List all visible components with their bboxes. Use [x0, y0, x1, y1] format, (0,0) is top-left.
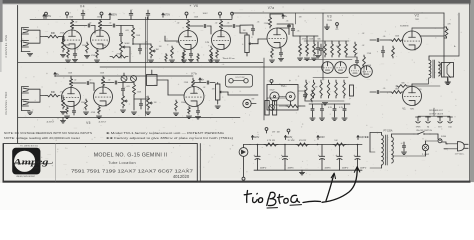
wire jacks to grid bus ch1	[29, 30, 47, 43]
filter capacitor C27 40MFD	[253, 145, 260, 171]
driver triode small a	[349, 65, 361, 77]
svg-text:Tube Location: Tube Location	[108, 161, 136, 165]
note line 2 right	[106, 136, 233, 140]
svg-text:1500: 1500	[181, 102, 185, 104]
svg-text:40MFD: 40MFD	[288, 168, 295, 170]
potentiometer VR3 volume ch1	[245, 33, 253, 56]
cathode bypass capacitor C7 V6a	[188, 50, 193, 62]
sheet right border	[469, 4, 471, 182]
output jack JS4	[448, 117, 453, 129]
svg-text:B75V: B75V	[164, 14, 170, 17]
label bass pot ch1	[155, 49, 158, 51]
underline under a	[290, 204, 302, 207]
svg-text:1M: 1M	[315, 87, 318, 89]
B+ arrow mid	[162, 13, 171, 17]
screen line V2	[400, 26, 444, 28]
svg-text:+: +	[318, 153, 320, 157]
handwritten word to	[278, 195, 289, 204]
svg-text:TM Inc.: TM Inc.	[33, 168, 39, 170]
top cap terminal B ch1	[100, 12, 103, 18]
wire volume to V7a grid	[253, 39, 268, 44]
label C36	[342, 168, 349, 170]
svg-text:270K: 270K	[367, 53, 372, 55]
note line 1 right	[106, 131, 224, 135]
grid resistor R35 V5b	[83, 99, 88, 114]
svg-text:+: +	[335, 153, 337, 157]
svg-text:410V✱✱: 410V✱✱	[359, 136, 369, 139]
svg-text:2K 10W: 2K 10W	[288, 140, 295, 142]
Ampeg logo address bottom	[16, 176, 36, 178]
vertical feed line V3 box	[322, 13, 324, 80]
triode section V3b	[335, 62, 347, 74]
title text part number	[173, 174, 190, 179]
resistor R24 V3 lower b	[312, 80, 315, 98]
output jack JS1	[416, 117, 422, 129]
footswitch jack box	[226, 75, 253, 88]
volume pot VR6 channel two	[215, 83, 223, 109]
label volume ch1	[251, 37, 253, 39]
underline under B	[267, 207, 278, 209]
svg-text:470: 470	[447, 24, 450, 26]
svg-text:B55V: B55V	[111, 14, 117, 17]
svg-text:100K: 100K	[69, 17, 74, 19]
B+ rail mid extension	[118, 19, 170, 21]
svg-text:20MFD: 20MFD	[360, 168, 367, 170]
coupling capacitor C4 V4b out	[100, 24, 121, 27]
heater cap C33	[332, 104, 337, 120]
feedback resistor R30	[396, 85, 440, 88]
heater cap C32	[319, 104, 324, 120]
wire primary to switch	[392, 134, 415, 137]
capacitor C37 V3 screen	[315, 42, 320, 58]
svg-text:.02: .02	[203, 87, 206, 89]
resistor pair R44	[182, 54, 184, 62]
wire lamp circuit	[392, 141, 438, 156]
scanner top edge bar	[0, 0, 474, 4]
coupling capacitor C16 to V2 grid	[370, 38, 390, 41]
svg-text:Break FS sw.: Break FS sw.	[223, 58, 235, 60]
filter capacitor C28 40MFD	[281, 145, 288, 171]
label PT-155A	[384, 130, 393, 133]
divider resistor R19	[311, 42, 316, 60]
svg-text:FOOT SW: FOOT SW	[236, 77, 245, 79]
svg-text:100K: 100K	[395, 36, 400, 38]
ground input jacks ch2	[22, 93, 33, 114]
triode V6b	[212, 31, 231, 50]
svg-text:✱ Model TM-1 factory replacem: ✱ Model TM-1 factory replacement unit — …	[106, 131, 224, 135]
TM-1 internal wires	[275, 97, 291, 106]
svg-text:V7b: V7b	[191, 72, 197, 76]
vertical wire footswitch	[263, 58, 265, 120]
resistor R42 mixer a	[110, 55, 128, 58]
tremolo network box	[147, 70, 158, 86]
series resistor R50 2K7	[264, 143, 278, 146]
svg-text:47Ω 2W: 47Ω 2W	[299, 140, 306, 142]
svg-text:LINDEN, NEW JERSEY: LINDEN, NEW JERSEY	[16, 176, 36, 178]
svg-text:+: +	[353, 153, 355, 157]
svg-text:1500: 1500	[102, 45, 106, 47]
svg-text:.02: .02	[362, 45, 365, 47]
wire TM-1 out	[298, 91, 312, 101]
svg-text:CHANNEL ONE: CHANNEL ONE	[4, 34, 8, 57]
plate resistor R36 V5b	[101, 76, 104, 87]
plate resistor R39 V7b	[192, 78, 195, 87]
junction dot tone out ch1	[132, 43, 134, 45]
wire jacks to grid bus ch2	[29, 89, 47, 102]
svg-text:+: +	[253, 153, 255, 157]
svg-text:.02: .02	[177, 23, 180, 25]
jack J2 channel one input 2	[22, 41, 29, 48]
svg-text:220K: 220K	[184, 82, 189, 84]
triode V5a	[62, 88, 81, 107]
svg-text:.02: .02	[362, 33, 365, 35]
note line 2 left	[4, 137, 80, 140]
shield line left	[144, 17, 146, 116]
wire wiper to mixer ch1	[126, 47, 131, 62]
label tube V6	[189, 3, 198, 7]
label B+ 220V	[317, 136, 325, 140]
resistor R8 bass feed ch1	[132, 26, 135, 41]
svg-text:220V: 220V	[319, 136, 325, 139]
label -6.3V left	[46, 121, 55, 124]
ground V3 lower bus	[306, 101, 344, 105]
output transformer T1 core	[433, 60, 435, 78]
coupling capacitor C9 V6b out	[221, 24, 240, 27]
svg-text:470K: 470K	[91, 55, 96, 57]
V3 enclosure left line	[295, 13, 297, 24]
svg-text:1M: 1M	[243, 30, 246, 32]
bias resistor R28 V2	[392, 46, 395, 58]
cathode resistor R11 V6a	[181, 50, 186, 63]
capacitor C10 to volume ch1	[240, 26, 247, 33]
grid resistor R26 V2	[390, 39, 403, 42]
label ON-OFF SWITCH	[416, 130, 433, 132]
ground bus power supply	[254, 169, 362, 171]
label break FS switch	[223, 58, 235, 60]
heater cap C34	[342, 104, 347, 120]
tremolo roller R48 right	[286, 92, 295, 101]
grid resistor R40 V7b	[173, 100, 178, 115]
potentiometer VR2 bass ch1	[148, 44, 155, 62]
label OUTPUT JACKS	[429, 112, 444, 115]
handwritten letter a	[291, 195, 300, 202]
top terminal D V6	[231, 12, 234, 18]
filter capacitor C29 40MFD	[318, 145, 325, 171]
bias cap box B2	[273, 101, 277, 116]
svg-text:V2: V2	[415, 14, 420, 18]
plate load resistor R3 V4a	[70, 20, 73, 31]
handwritten word tie	[244, 191, 262, 203]
grid resistor R10 V6a	[169, 46, 174, 62]
label R1 68K	[51, 32, 56, 35]
resistor R38 bass feed ch2	[133, 83, 136, 97]
wire rectifier to rail	[244, 144, 251, 146]
series resistor R51	[296, 143, 309, 146]
wire grid to V4a	[60, 37, 64, 41]
label B65V top left	[43, 15, 52, 19]
wire tone bus ch2	[123, 83, 148, 115]
cathode resistor R37 V5b	[96, 106, 101, 118]
note line 1 left	[4, 132, 92, 135]
svg-text:250K: 250K	[136, 35, 141, 37]
svg-text:470K: 470K	[60, 92, 65, 94]
pentode section V3a	[322, 62, 334, 74]
Ampeg logo black square	[12, 148, 40, 175]
label tube V4	[80, 4, 85, 8]
svg-text:.01: .01	[145, 97, 148, 99]
resistor R27 screen dropper	[444, 27, 448, 38]
svg-text:.02: .02	[89, 23, 92, 25]
wire V3 top bus	[304, 40, 349, 42]
label tube V3	[327, 15, 333, 23]
ground symbol V3 input	[324, 24, 329, 29]
filter capacitor C36 40MFD	[335, 145, 342, 171]
B+ arrow V7b	[199, 78, 205, 82]
plate load resistor R12 V6b	[219, 20, 222, 31]
svg-text:420V: 420V	[254, 136, 260, 139]
svg-text:4012020: 4012020	[173, 174, 190, 179]
handwritten letter B	[267, 192, 276, 205]
svg-text:V3: V3	[327, 15, 332, 19]
title text tube lineup	[71, 168, 193, 174]
svg-text:SPKR: SPKR	[416, 127, 421, 129]
B+ rail V6 section	[170, 19, 232, 21]
top cap terminal V3	[336, 23, 339, 28]
junction dot rail 2	[284, 144, 286, 146]
output transformer T1 secondary	[439, 62, 441, 76]
footswitch lamp circle	[269, 105, 275, 111]
resistor R31 68K grid stopper ch2	[46, 94, 60, 97]
resistor R1 68K grid stopper ch1	[46, 35, 60, 38]
sheet left border	[17, 6, 19, 144]
bus wire lower row	[100, 66, 323, 68]
label tube V7b	[191, 72, 197, 76]
resistor R54 V3 grid	[354, 42, 357, 57]
svg-text:1M: 1M	[155, 49, 158, 51]
bias cap box B1	[265, 101, 269, 116]
label B+ 410V	[284, 136, 292, 140]
svg-text:.05: .05	[297, 31, 300, 33]
svg-text:SPKR AND EXT: SPKR AND EXT	[429, 109, 444, 112]
tremolo unit TM-1 box	[267, 85, 298, 111]
svg-text:68K: 68K	[51, 32, 56, 35]
wire jacks bus	[418, 108, 450, 116]
fuse holder bottom circle	[242, 156, 245, 180]
svg-text:PT-155A: PT-155A	[384, 130, 393, 133]
svg-text:4.7K 5W: 4.7K 5W	[267, 140, 275, 142]
svg-text:CHANNEL TWO: CHANNEL TWO	[4, 91, 8, 114]
top cap terminal V6b	[219, 12, 222, 18]
label tube V2	[415, 14, 421, 22]
wire V2 plate to OT	[412, 28, 444, 36]
plate resistor R15 V7a	[268, 14, 283, 28]
svg-text:.02: .02	[305, 87, 308, 89]
ground input jacks ch1	[22, 34, 33, 56]
svg-text:.01: .01	[145, 42, 148, 44]
power transformer T2 secondary	[382, 135, 384, 165]
grid wire V7b	[168, 94, 184, 96]
svg-text:160V: 160V	[202, 13, 208, 15]
svg-text:.05: .05	[257, 22, 260, 24]
label C28	[288, 168, 295, 170]
svg-text:470K: 470K	[91, 112, 96, 114]
junction dot rail 1	[257, 144, 259, 146]
svg-text:V1: V1	[402, 107, 406, 111]
potentiometer VR1 treble ch1	[120, 40, 126, 58]
label tube V7a	[268, 6, 275, 10]
svg-text:.1: .1	[356, 53, 358, 55]
divider resistor R18	[304, 42, 309, 60]
wire fuse to plug	[442, 142, 448, 149]
capacitor C6 bass ch1	[138, 44, 141, 54]
heater rail	[18, 117, 240, 119]
label 117 VAC	[455, 153, 465, 156]
svg-text:V4: V4	[80, 4, 85, 8]
capacitor C39 V3 out upper	[355, 57, 358, 66]
triode V6a	[179, 31, 198, 50]
capacitor C41 decoupler mid2	[146, 10, 150, 20]
svg-text:40MFD: 40MFD	[342, 168, 349, 170]
svg-text:✱✱ Factory adjusted to give 38: ✱✱ Factory adjusted to give 385mv of pla…	[106, 136, 233, 140]
svg-text:100K: 100K	[395, 89, 400, 91]
wire V3 outputs	[346, 57, 364, 75]
coupling capacitor C8 V6a-V6b	[188, 24, 211, 34]
output tube V1 (7591)	[403, 87, 422, 106]
ground OT secondary right	[445, 79, 450, 85]
svg-text:V6: V6	[194, 4, 199, 8]
svg-text:+: +	[281, 153, 283, 157]
resistor R58 V3 lower e	[335, 80, 338, 98]
ground symbol power supply	[299, 170, 304, 175]
resistor R55 V3	[345, 41, 348, 57]
label 470K mixer	[116, 53, 122, 55]
cathode resistor R41 V7b	[186, 107, 191, 119]
triode V7a	[267, 28, 287, 48]
wire ch2 to mixer	[223, 92, 258, 95]
capacitor C17 bias V2	[381, 46, 384, 57]
svg-text:2.2M: 2.2M	[205, 42, 210, 44]
wire tone bus ch1	[121, 26, 151, 45]
jack J1 channel one input 1	[22, 28, 29, 35]
svg-text:.02: .02	[109, 23, 112, 25]
capacitor box C15 V3	[350, 85, 354, 96]
svg-text:68K: 68K	[51, 91, 56, 94]
plate resistor R33 V5a	[69, 76, 72, 88]
svg-text:.005: .005	[125, 30, 129, 32]
svg-text:470K: 470K	[302, 39, 307, 41]
label C29	[325, 168, 332, 170]
capacitor C5 treble ch1	[119, 26, 122, 41]
plate load resistor R6 V4b	[98, 20, 101, 31]
Ampeg logo TM text	[33, 168, 39, 170]
death capacitor C35	[401, 142, 406, 154]
driver triode small b	[361, 66, 373, 78]
capacitor C23 bass ch2	[139, 99, 142, 109]
label C30	[360, 168, 367, 170]
terminal circle PS b	[287, 129, 290, 134]
capacitor C40 decoupler mid	[129, 10, 133, 20]
bias resistor R53	[286, 105, 300, 108]
speaker SP1	[439, 63, 454, 78]
svg-text:SCREEN: SCREEN	[400, 26, 409, 28]
triode V5b	[94, 87, 113, 106]
svg-text:270K: 270K	[367, 65, 372, 67]
handwritten arrow to cap B	[326, 173, 336, 201]
svg-text:7199: 7199	[327, 20, 333, 22]
potentiometer VR4 treble ch2	[120, 94, 127, 112]
tremolo roller R47 left	[270, 92, 279, 101]
power rail	[250, 144, 362, 146]
series resistor R52	[333, 143, 346, 146]
grid resistor R13 V6b	[208, 46, 213, 62]
pilot lamp PL1	[422, 144, 430, 156]
output jack JS3	[438, 117, 443, 129]
svg-text:.05: .05	[227, 23, 230, 25]
B+ wire ch2	[54, 73, 193, 77]
svg-text:1M: 1M	[159, 46, 162, 48]
shield line right	[146, 17, 148, 62]
output transformer T1 primary	[429, 60, 431, 78]
svg-text:V5: V5	[86, 121, 91, 125]
svg-text:.02: .02	[215, 23, 218, 25]
coupling capacitor C20 V5a-V5b	[71, 81, 94, 90]
triode V4b	[91, 30, 110, 49]
title text Tube Location	[108, 161, 136, 165]
svg-text:220K: 220K	[264, 23, 269, 25]
terminal circle above TM-1	[270, 80, 273, 85]
label C27	[260, 168, 267, 170]
top cap terminal A ch1	[66, 12, 69, 18]
title text MODEL NO	[94, 152, 168, 158]
svg-text:2W · 10K: 2W · 10K	[272, 132, 281, 134]
svg-text:.05: .05	[286, 21, 289, 23]
grid wire V6a	[165, 36, 179, 41]
handwritten curved arrow to cap a	[322, 167, 360, 203]
resistor pair R43	[165, 54, 167, 62]
cathode bypass capacitor C12 V7a	[278, 48, 283, 61]
component value labels (bulk)	[60, 17, 457, 149]
top terminal C ch1	[45, 12, 48, 18]
triode V4a	[63, 30, 82, 49]
svg-text:.05: .05	[383, 88, 386, 90]
label R2 470K	[65, 45, 71, 47]
pot circle P2 tremolo intensity	[131, 76, 137, 82]
resistor R23 V3 lower a	[305, 80, 308, 98]
svg-text:470K: 470K	[60, 33, 65, 35]
capacitor C14 V7a out lower	[277, 24, 295, 36]
wire switch to fuse	[430, 134, 438, 139]
svg-text:6SQ7: 6SQ7	[270, 90, 275, 92]
svg-text:EXT: EXT	[438, 127, 441, 129]
svg-text:.05: .05	[383, 36, 386, 38]
svg-text:1500: 1500	[81, 102, 85, 104]
wire V1 plate	[412, 84, 428, 87]
footswitch jack FS1	[243, 99, 256, 107]
svg-text:40MFD: 40MFD	[325, 168, 332, 170]
cathode bypass capacitor C19 V5a	[72, 107, 75, 116]
wire OT primary bottom to V1	[428, 78, 430, 84]
output tube V2 (7591)	[403, 31, 422, 50]
svg-text:117 V.A.C.: 117 V.A.C.	[455, 153, 465, 156]
bus wire mixer row	[18, 62, 263, 64]
scanner right edge bar	[471, 0, 474, 182]
label R31 68K ch2	[51, 91, 56, 94]
svg-text:1500: 1500	[176, 42, 180, 44]
divider resistor R17	[297, 42, 302, 60]
svg-text:.02: .02	[108, 80, 111, 82]
svg-text:V7a: V7a	[268, 6, 275, 10]
svg-text:FUSE: FUSE	[441, 136, 447, 138]
